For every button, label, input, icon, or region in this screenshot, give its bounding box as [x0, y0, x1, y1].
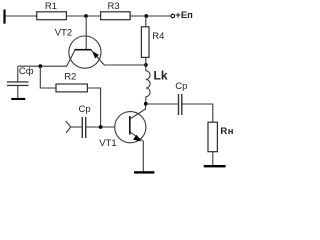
ground (under VT1 emitter) — [134, 171, 154, 173]
transistor VT1 (NPN) circle — [115, 112, 146, 143]
resistor R3 — [101, 12, 131, 20]
svg-text:R3: R3 — [108, 1, 120, 12]
capacitor Cp (input) left plate — [82, 117, 83, 138]
svg-text:VT2: VT2 — [55, 27, 72, 38]
inductor Lk coil (3 arcs) — [146, 71, 150, 97]
VT1 collector lead (diagonal) — [131, 109, 146, 119]
wire: input to Cp — [71, 126, 82, 128]
wire: Cf node to VT2 collector — [18, 65, 67, 67]
svg-text:R4: R4 — [152, 31, 164, 42]
resistor R4 — [141, 27, 149, 58]
wire: node down to R2 — [40, 66, 56, 88]
VT1 emitter vertical to ground — [142, 141, 144, 171]
wire: R3 to +Ep terminal — [130, 15, 171, 17]
node: Lk/VT1 collector/Cp out junction — [144, 102, 148, 106]
capacitor Cp (input) right plate — [85, 117, 86, 138]
wire: R1 to R3 — [66, 15, 100, 17]
svg-text:Ср: Ср — [175, 81, 187, 92]
node: R2/Cp/VT1 base junction — [99, 125, 103, 129]
transistor VT2 (PNP) circle — [69, 36, 101, 68]
resistor Rn (load) — [208, 122, 217, 152]
svg-text:Lk: Lk — [154, 68, 168, 82]
VT2 emitter lead (right diagonal) — [91, 50, 104, 65]
VT2 collector lead (left diagonal) — [67, 50, 75, 66]
input source symbol (open arrow) — [66, 121, 71, 133]
ground (under Rn) — [204, 165, 226, 167]
svg-text:VT1: VT1 — [99, 138, 116, 149]
svg-text:R1: R1 — [45, 1, 57, 12]
wire: Cp to Rn — [183, 104, 213, 122]
resistor R1 — [37, 12, 67, 20]
svg-text:Ср: Ср — [79, 104, 91, 115]
VT1 base bar — [129, 116, 131, 135]
capacitor Cf top plate — [7, 81, 29, 82]
node: Cf/R2/VT2 collector junction — [38, 64, 42, 68]
node: R1/R3/VT2 base junction — [84, 14, 88, 18]
svg-text:Rн: Rн — [220, 126, 234, 137]
node: R3/R4 junction — [144, 14, 148, 18]
wire: R4 to Lk node — [145, 57, 147, 65]
ground (under Cf) — [11, 98, 25, 100]
svg-text:Сф: Сф — [19, 66, 34, 77]
VT1 collector vertical to Lk node — [145, 104, 147, 110]
capacitor Cp (output) right plate — [181, 94, 182, 115]
wire: R2 to VT1 base node — [87, 88, 100, 127]
wire: Cp to VT1 base — [86, 126, 115, 128]
VT2 emitter arrow (PNP, pointing to base) — [92, 51, 99, 58]
VT2 base lead from top node — [85, 16, 87, 49]
node: R4/Lk/VT2 emitter junction — [144, 63, 148, 67]
inductor Lk bottom lead — [145, 97, 147, 104]
wire: terminal to R1 — [6, 15, 37, 17]
inductor Lk lead from node — [145, 65, 147, 71]
capacitor Cf bottom lead — [17, 86, 19, 98]
wire: node to Cp (output) — [146, 103, 178, 105]
wire: VT2 emitter to Lk node — [104, 64, 146, 66]
wire: node to R4 — [145, 16, 147, 27]
capacitor Cf top lead — [17, 66, 19, 81]
VT1 emitter arrow (NPN, pointing out) — [133, 135, 141, 142]
VT2 base bar — [74, 49, 91, 51]
capacitor Cp (output) left plate — [178, 94, 179, 115]
input terminal bar (left rail end) — [3, 10, 5, 24]
terminal +Ep (open circle) — [171, 14, 175, 18]
VT1 emitter lead (diagonal) — [131, 132, 144, 141]
svg-text:R2: R2 — [64, 71, 76, 82]
resistor R2 — [56, 84, 87, 92]
svg-text:+Еп: +Еп — [175, 10, 193, 21]
capacitor Cf bottom plate — [7, 85, 29, 86]
wire: Rn to ground — [212, 152, 214, 165]
